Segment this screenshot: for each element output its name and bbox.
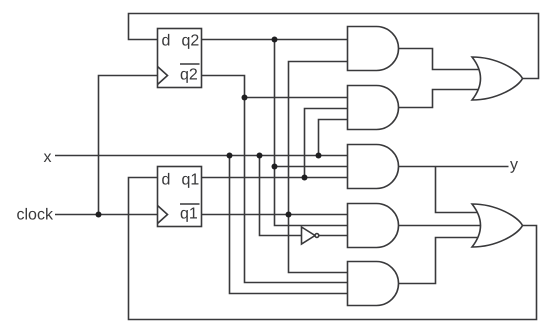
wire x drop to AND5 (230, 156, 348, 294)
svg-text:x: x (44, 149, 52, 166)
node q2 to AND3 (272, 164, 278, 170)
wire q1 riser to AND2 (305, 109, 348, 178)
wire clock input (55, 214, 158, 216)
and-gate A2 (348, 86, 399, 130)
svg-text:d: d (162, 33, 171, 50)
wire q2-bar branch to AND2 input (245, 97, 348, 99)
overline of q1-bar (180, 203, 200, 205)
node x to AND2 (316, 153, 322, 159)
and-gate A1 (348, 27, 399, 71)
svg-text:q2: q2 (182, 33, 200, 50)
flip-flop U1 (q1) box (158, 167, 202, 227)
flip-flop U2 (q2) box (158, 29, 202, 88)
wire q1-bar output to AND4 (202, 214, 348, 216)
and-gate A4 (348, 204, 399, 248)
node q2 branch (272, 37, 278, 43)
wire AND2 output to OR1 (399, 90, 479, 108)
wire q2 vertical branch down to AND4 (275, 40, 348, 226)
wire clock riser to q2 clock (99, 76, 158, 215)
wire y branch down to OR2 (436, 167, 479, 213)
wire x input to AND3 (55, 155, 348, 157)
svg-text:q1: q1 (182, 172, 200, 189)
wire q2-bar output down to AND5 (202, 76, 348, 283)
wire q1 output to AND3 (202, 177, 348, 179)
wire AND4 output to OR2 (399, 225, 482, 227)
node q1 branch (302, 175, 308, 181)
wire AND5 output to OR2 (399, 238, 479, 284)
wire top feedback (OR1 output to d of q2) (129, 14, 539, 79)
svg-text:q2: q2 (180, 67, 198, 84)
inverter triangle (302, 227, 316, 244)
node x to AND5 (227, 153, 233, 159)
and-gate A3 (348, 145, 399, 189)
or-gate O2 (472, 204, 523, 247)
svg-text:y: y (510, 157, 518, 174)
wire x riser to AND2 (319, 120, 348, 156)
node x to inverter (257, 153, 263, 159)
wire q2 output to AND1 (202, 39, 348, 41)
svg-text:clock: clock (17, 207, 54, 224)
svg-text:q1: q1 (180, 206, 198, 223)
wire q2 branch to AND3 input (275, 166, 348, 168)
node q1-bar branch (286, 212, 292, 218)
flip-flop U2 clock edge triangle (158, 67, 168, 85)
wire bottom feedback (OR2 output to d of q1) (129, 178, 537, 320)
svg-text:d: d (162, 172, 171, 189)
and-gate A5 (348, 262, 399, 306)
node q2-bar to AND2 (242, 95, 248, 101)
wire AND1 output to OR1 (399, 49, 479, 70)
wire y output (399, 166, 509, 168)
flip-flop U1 clock edge triangle (158, 206, 168, 224)
or-gate O1 (472, 57, 523, 100)
node clock junction (96, 212, 102, 218)
wire q1-bar drop to AND5 (289, 215, 348, 273)
wire x drop to inverter (260, 156, 302, 236)
inverter bubble (315, 234, 319, 238)
wire q1-bar riser to AND1 (289, 62, 348, 215)
wire inverter output to AND4 (319, 235, 348, 237)
overline of q2-bar (180, 63, 200, 65)
